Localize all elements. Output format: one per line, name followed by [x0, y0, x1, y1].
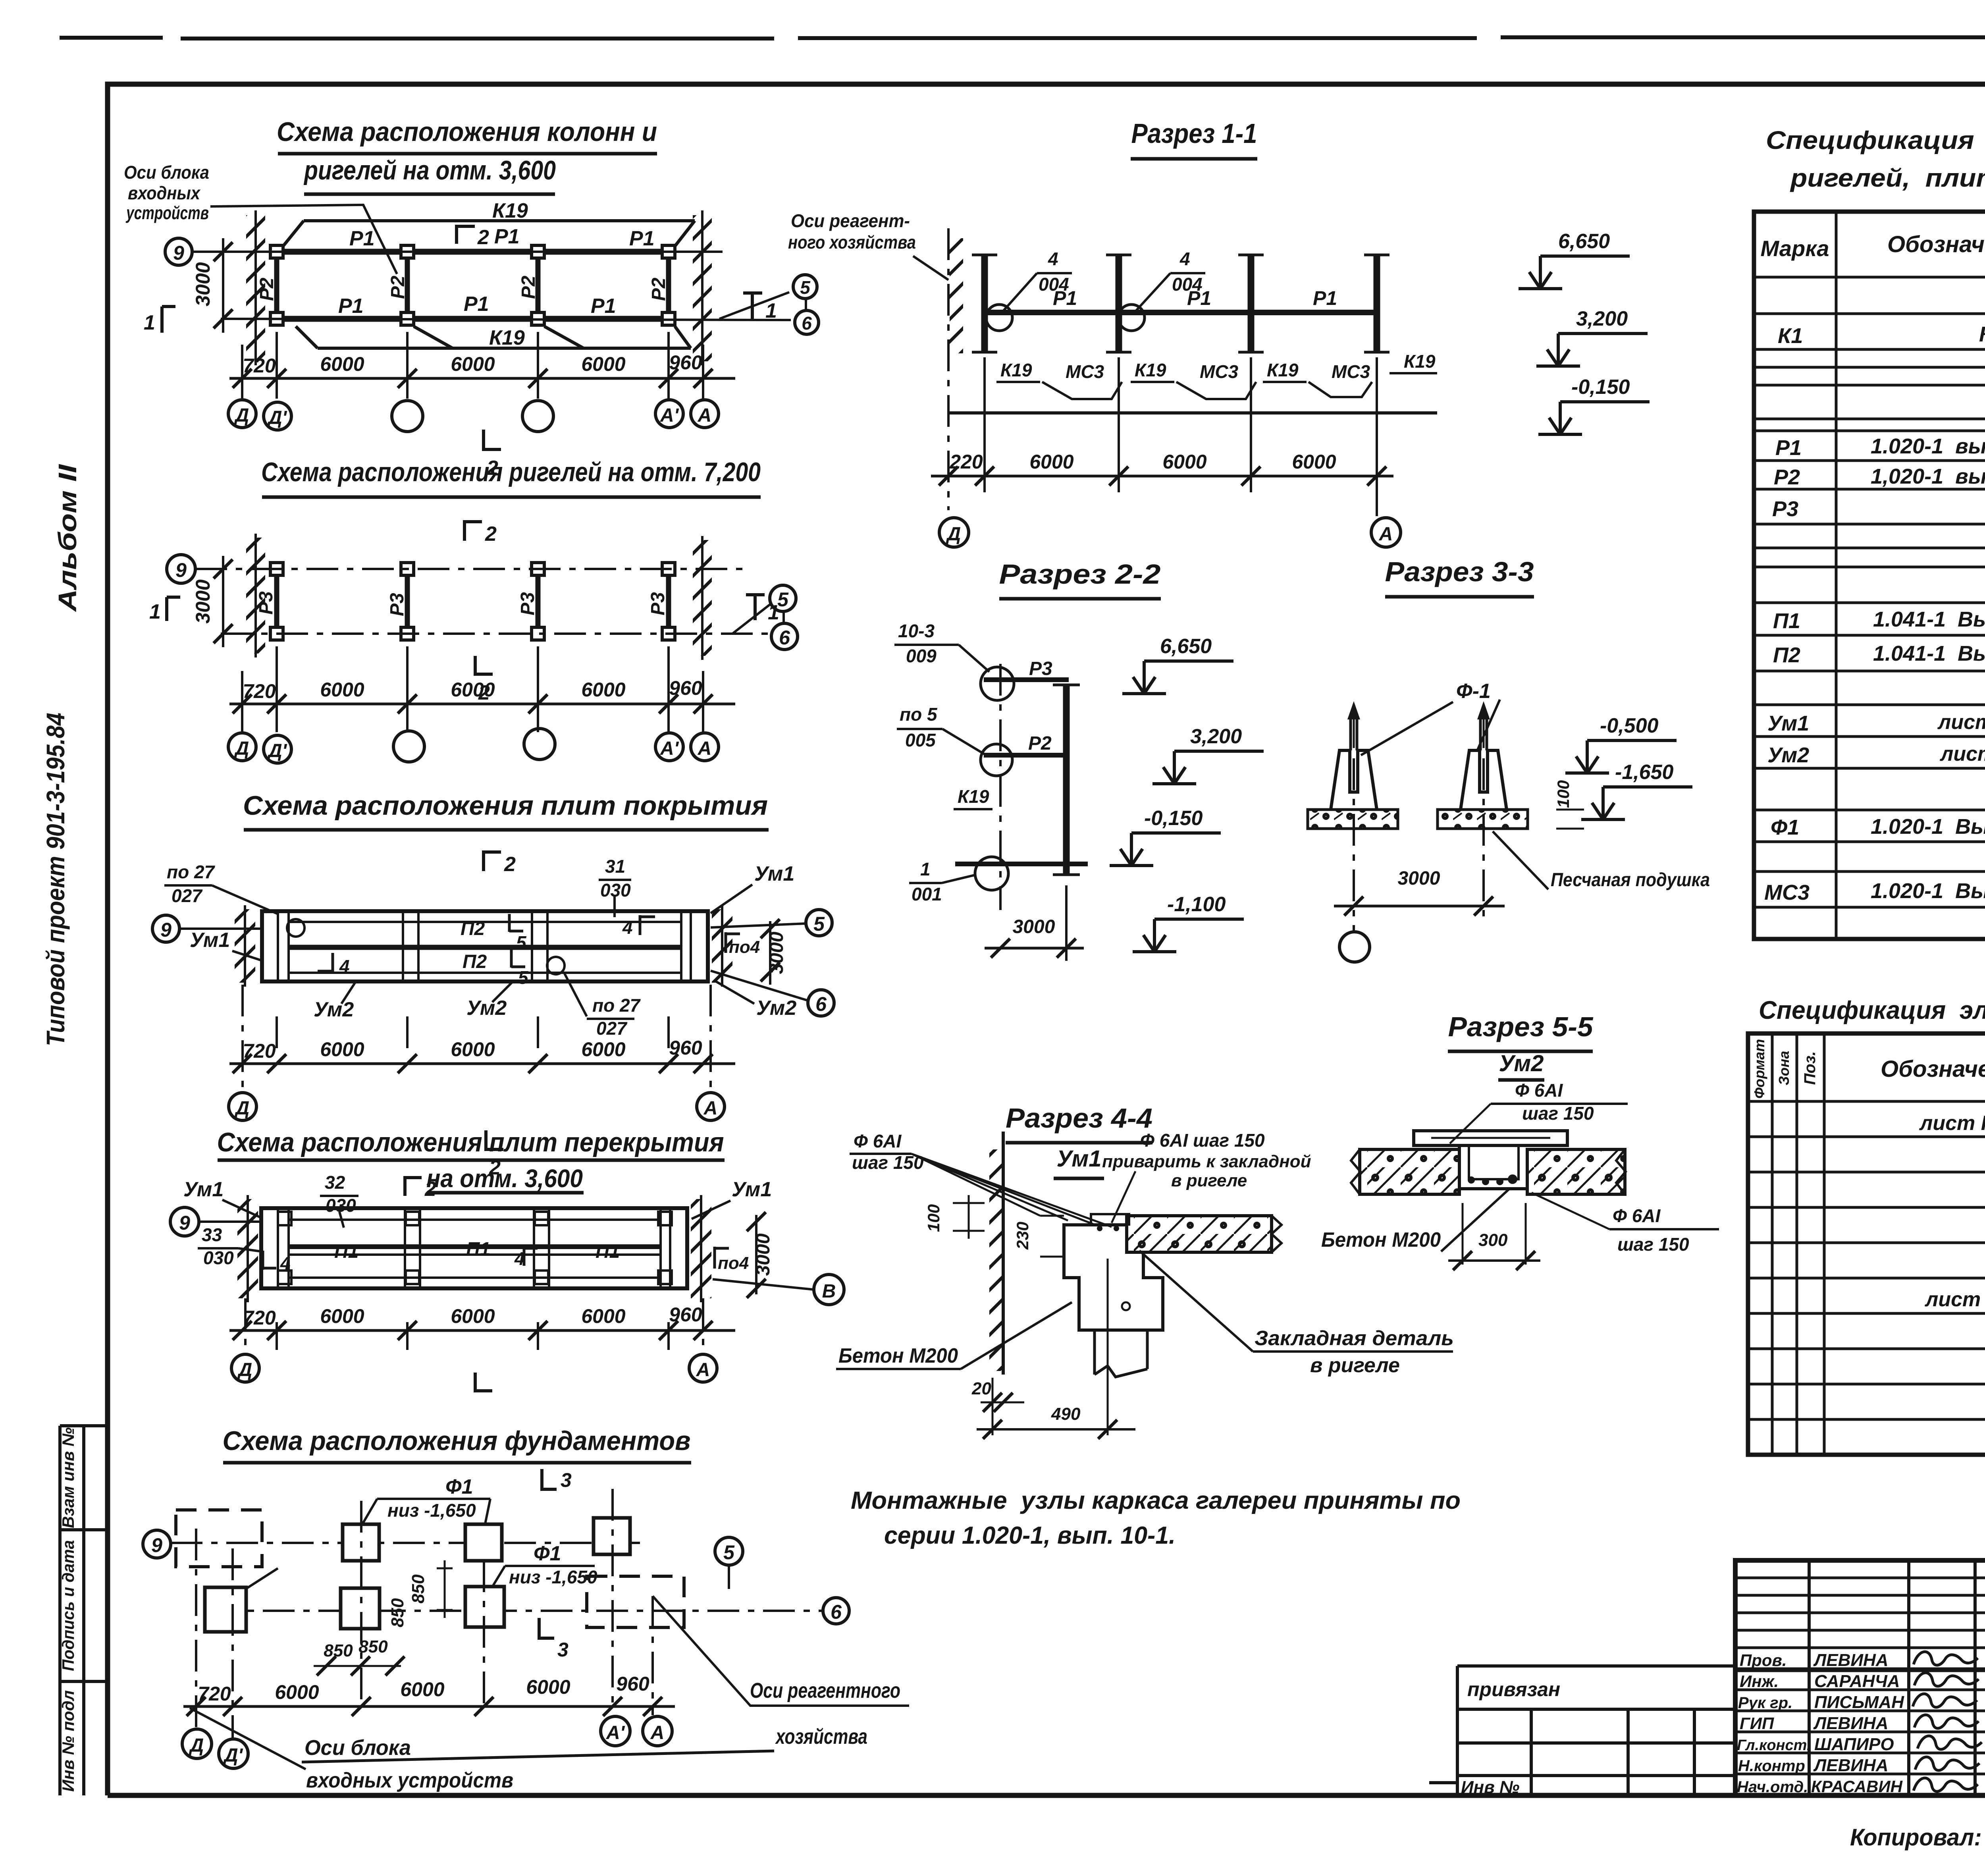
svg-text:Д: Д — [234, 1098, 250, 1119]
svg-text:9: 9 — [151, 1534, 162, 1556]
foundation 2 body — [1461, 750, 1507, 810]
svg-text:Ум1: Ум1 — [732, 1178, 772, 1201]
leader Um1 right — [692, 1201, 730, 1219]
svg-text:Подпись и дата: Подпись и дата — [59, 1540, 77, 1671]
leader to circle 5 — [732, 604, 770, 634]
svg-text:К19: К19 — [492, 199, 528, 222]
svg-text:САРАНЧА: САРАНЧА — [1814, 1672, 1900, 1691]
svg-text:Д': Д' — [223, 1745, 243, 1766]
svg-text:Гл.конст.: Гл.конст. — [1737, 1737, 1811, 1754]
svg-text:Оси реагентного: Оси реагентного — [750, 1679, 900, 1702]
svg-text:серии 1.020-1, вып. 10-1.: серии 1.020-1, вып. 10-1. — [884, 1522, 1176, 1549]
embedded plate — [1091, 1214, 1129, 1224]
column K19 thick — [1063, 685, 1070, 875]
svg-text:П1: П1 — [334, 1241, 358, 1262]
svg-text:6000: 6000 — [320, 1038, 364, 1060]
svg-text:6000: 6000 — [451, 1038, 495, 1060]
dim 300 ext lines — [1463, 1203, 1526, 1265]
rebar leaders fan — [912, 1154, 1112, 1227]
svg-text:КЖИ.К19: КЖИ.К19 — [1979, 322, 1985, 346]
svg-text:960: 960 — [669, 1037, 702, 1059]
svg-text:Бетон М200: Бетон М200 — [838, 1344, 958, 1367]
svg-text:Р3: Р3 — [648, 592, 669, 615]
section mark 4 left — [318, 953, 333, 973]
svg-text:-1,650: -1,650 — [1615, 761, 1674, 784]
left block cut — [1351, 1149, 1361, 1194]
leader po27 bottom — [565, 974, 587, 1016]
leaders F1 — [362, 1499, 490, 1525]
svg-text:хозяйства: хозяйства — [775, 1725, 867, 1749]
right wall hatch — [693, 540, 712, 656]
leader Um1 left — [222, 1200, 262, 1218]
section mark 2 top — [405, 1176, 422, 1196]
svg-text:100: 100 — [924, 1204, 943, 1232]
axis extension verticals — [243, 985, 711, 1092]
svg-text:9: 9 — [160, 919, 172, 941]
foundation squares row 2 — [205, 1587, 246, 1632]
svg-text:МС3: МС3 — [1332, 361, 1370, 382]
svg-text:Д: Д — [234, 738, 249, 759]
svg-text:привязан: привязан — [1467, 1678, 1560, 1701]
po4 mark right — [726, 932, 740, 953]
svg-text:Разрез 3-3: Разрез 3-3 — [1385, 556, 1534, 587]
svg-text:Схема расположения плит перекр: Схема расположения плит перекрытия — [217, 1127, 724, 1157]
svg-text:6,650: 6,650 — [1160, 635, 1212, 658]
svg-text:5: 5 — [516, 932, 527, 953]
svg-text:Р2: Р2 — [256, 278, 278, 301]
svg-text:490: 490 — [1051, 1404, 1081, 1424]
svg-text:Поз.: Поз. — [1801, 1051, 1819, 1085]
dimension line scheme 5 — [183, 1705, 675, 1708]
axis row 2 dash-dot — [221, 632, 769, 635]
axis extension verticals — [245, 1298, 703, 1354]
column squares row 1 — [270, 563, 675, 575]
svg-text:2: 2 — [504, 853, 516, 876]
svg-text:6: 6 — [779, 627, 790, 649]
svg-text:в ригеле: в ригеле — [1310, 1354, 1400, 1377]
svg-text:ПИСЬМАН: ПИСЬМАН — [1814, 1693, 1904, 1712]
axis line left — [179, 927, 262, 930]
svg-text:ригелей, плит, фундаментов: ригелей, плит, фундаментов — [1790, 164, 1985, 192]
svg-text:3,200: 3,200 — [1576, 307, 1628, 330]
svg-text:А: А — [703, 1098, 718, 1119]
svg-text:027: 027 — [596, 1018, 628, 1039]
svg-text:по 5: по 5 — [900, 704, 938, 725]
T1 mark — [746, 595, 765, 620]
svg-text:6000: 6000 — [275, 1681, 319, 1703]
slab concrete — [1127, 1216, 1272, 1252]
svg-text:лист КЖ50: лист КЖ50 — [1939, 742, 1985, 765]
svg-text:009: 009 — [906, 646, 937, 666]
section mark 2 top — [457, 225, 475, 244]
elevation 3.200 — [1536, 334, 1648, 366]
right block cut — [1616, 1149, 1626, 1194]
svg-text:1.041-1 Вып.1: 1.041-1 Вып.1 — [1873, 642, 1985, 665]
axis circle 5 — [715, 1537, 743, 1565]
svg-text:-0,150: -0,150 — [1144, 807, 1203, 830]
axis circle 5 — [793, 275, 817, 299]
svg-text:Оси блока: Оси блока — [304, 1736, 411, 1760]
axis extension verticals — [196, 1489, 653, 1739]
svg-text:4: 4 — [1048, 249, 1058, 269]
svg-text:-1,100: -1,100 — [1167, 893, 1226, 916]
svg-text:3,200: 3,200 — [1190, 725, 1242, 748]
connector 5-6 — [805, 299, 807, 310]
svg-text:1.020-1 вып.3-1: 1.020-1 вып.3-1 — [1871, 434, 1985, 458]
section mark 2 bottom — [475, 656, 493, 676]
axis row 1 dash-dot — [195, 568, 743, 570]
svg-text:2: 2 — [485, 523, 497, 546]
svg-text:А: А — [1379, 524, 1393, 545]
svg-text:ШАПИРО: ШАПИРО — [1814, 1735, 1894, 1754]
svg-text:на отм. 3,600: на отм. 3,600 — [426, 1164, 583, 1193]
svg-text:Р1: Р1 — [338, 295, 364, 318]
leader square row2 left — [247, 1568, 278, 1588]
svg-text:Разрез 5-5: Разрез 5-5 — [1448, 1011, 1594, 1042]
svg-text:Р3: Р3 — [387, 593, 408, 616]
svg-text:Д': Д' — [267, 407, 287, 428]
svg-text:К19: К19 — [489, 326, 525, 349]
svg-text:В: В — [822, 1281, 836, 1302]
svg-text:Р2: Р2 — [387, 276, 409, 299]
axis circle 6 — [808, 990, 834, 1016]
svg-text:К19: К19 — [1000, 360, 1032, 380]
svg-text:Р1: Р1 — [349, 227, 375, 250]
axis circle 9 — [165, 238, 192, 265]
svg-text:960: 960 — [616, 1673, 649, 1695]
elevation -0.150 — [1110, 833, 1221, 866]
svg-text:001: 001 — [912, 884, 942, 904]
upper thin rows left zone — [1735, 1578, 1985, 1671]
svg-text:9: 9 — [179, 1212, 190, 1234]
leader to input block label — [190, 1708, 306, 1769]
svg-text:Р3: Р3 — [1772, 497, 1798, 521]
foundation 1 base plate — [1308, 810, 1398, 829]
svg-text:Ум2: Ум2 — [1767, 743, 1809, 767]
svg-text:Ум1: Ум1 — [1057, 1146, 1102, 1172]
joint circle bottom — [975, 857, 1008, 890]
svg-text:4: 4 — [1179, 249, 1190, 269]
section mark 1 left — [162, 307, 175, 333]
svg-text:Н.контр: Н.контр — [1738, 1757, 1805, 1775]
svg-text:шаг 150: шаг 150 — [1617, 1234, 1689, 1255]
svg-text:устройств: устройств — [125, 202, 209, 223]
girders P2 verticals — [277, 258, 669, 312]
axis circle 9 — [143, 1530, 171, 1558]
axis row 1 line — [192, 251, 723, 253]
signature rows — [1735, 1669, 1985, 1774]
svg-text:1: 1 — [144, 311, 155, 334]
svg-text:Альбом II: Альбом II — [53, 464, 82, 613]
right wall hatch — [691, 1199, 711, 1298]
svg-text:850: 850 — [358, 1637, 388, 1656]
svg-text:Ум1: Ум1 — [1767, 711, 1809, 735]
svg-text:Схема расположения ригелей на: Схема расположения ригелей на отм. 7,200 — [261, 457, 761, 487]
svg-text:1.041-1 Вып.1: 1.041-1 Вып.1 — [1873, 607, 1985, 631]
svg-text:20: 20 — [971, 1379, 991, 1398]
svg-text:Копировал: Корецкая: Копировал: Корецкая — [1850, 1824, 1985, 1851]
leader reagent label — [913, 256, 948, 280]
slab band outer rect — [261, 1208, 687, 1288]
connector 5-6 — [782, 611, 785, 623]
svg-text:Ф 6АI: Ф 6АI — [1613, 1205, 1661, 1226]
top edge line — [60, 37, 1985, 39]
svg-text:850: 850 — [388, 1598, 407, 1627]
wall hatch — [950, 238, 963, 353]
axis verticals — [1354, 758, 1484, 931]
svg-text:-0,150: -0,150 — [1571, 376, 1630, 399]
svg-text:П2: П2 — [461, 918, 485, 939]
axis line left — [199, 1220, 262, 1223]
svg-text:3: 3 — [561, 1469, 572, 1491]
svg-text:Разрез 1-1: Разрез 1-1 — [1131, 118, 1257, 149]
left concrete block — [1360, 1149, 1459, 1194]
svg-text:Р2: Р2 — [1028, 733, 1052, 754]
section mark 3 bottom — [539, 1618, 554, 1640]
svg-text:Р2: Р2 — [1774, 465, 1800, 489]
svg-text:3000: 3000 — [192, 579, 214, 623]
svg-text:К19: К19 — [1404, 351, 1436, 372]
svg-text:Марка: Марка — [1761, 236, 1829, 261]
svg-text:Обозначение: Обозначение — [1881, 1056, 1985, 1082]
wall line with hatch — [1002, 1132, 1005, 1375]
svg-text:Нач.отд.: Нач.отд. — [1737, 1778, 1808, 1796]
svg-text:10-3: 10-3 — [898, 621, 935, 641]
right concrete block — [1527, 1149, 1625, 1194]
floor line -0.150 — [955, 862, 1088, 866]
table 2 grid — [1748, 1033, 1985, 1455]
left wall hatch — [237, 1199, 258, 1298]
top plate — [1414, 1131, 1567, 1145]
left wall hatch — [246, 538, 265, 654]
svg-text:720: 720 — [243, 355, 276, 377]
dim 3000 vertical right — [755, 1215, 757, 1294]
svg-text:Бетон М200: Бетон М200 — [1321, 1228, 1441, 1251]
right wall hatch — [693, 215, 712, 361]
svg-text:6000: 6000 — [581, 1305, 625, 1327]
lower column — [1095, 1330, 1147, 1377]
slab cut end — [1272, 1216, 1282, 1252]
svg-text:6,650: 6,650 — [1558, 230, 1610, 253]
foundation squares row 1 — [343, 1524, 379, 1561]
svg-text:5: 5 — [518, 967, 529, 988]
axis circle 5 — [770, 585, 796, 611]
svg-text:6000: 6000 — [1029, 451, 1073, 473]
svg-text:6: 6 — [815, 993, 827, 1015]
dimension line scheme 1 — [229, 377, 735, 380]
svg-text:МС3: МС3 — [1200, 361, 1239, 382]
svg-text:К19: К19 — [1267, 360, 1299, 380]
svg-text:6: 6 — [802, 313, 812, 334]
svg-text:1: 1 — [768, 601, 779, 624]
svg-text:Р1: Р1 — [629, 227, 655, 250]
svg-text:Разрез 2-2: Разрез 2-2 — [999, 559, 1161, 590]
axis extension verticals — [985, 357, 1377, 516]
T1 mark — [743, 293, 762, 320]
svg-text:ного хозяйства: ного хозяйства — [788, 232, 916, 253]
svg-text:6000: 6000 — [581, 1038, 625, 1060]
dim 3000 vertical — [222, 238, 224, 333]
table 1 grid — [1754, 212, 1985, 939]
elevation 6.650 — [1122, 661, 1233, 694]
trough U profile — [1459, 1145, 1527, 1189]
svg-text:лист КЖ50: лист КЖ50 — [1924, 1288, 1985, 1311]
svg-text:-0,500: -0,500 — [1600, 714, 1659, 737]
svg-text:КРАСАВИН: КРАСАВИН — [1811, 1777, 1903, 1796]
svg-text:Монтажные узлы каркаса галере: Монтажные узлы каркаса галереи приняты п… — [851, 1487, 1461, 1514]
svg-text:004: 004 — [1039, 274, 1069, 295]
svg-text:027: 027 — [172, 885, 203, 906]
svg-text:Д': Д' — [267, 740, 287, 762]
svg-text:Разрез 4-4: Разрез 4-4 — [1006, 1103, 1152, 1134]
svg-text:300: 300 — [1478, 1230, 1508, 1250]
leader to circle B — [713, 1279, 814, 1290]
svg-text:Ум2: Ум2 — [466, 997, 507, 1020]
svg-text:3000: 3000 — [766, 931, 787, 974]
svg-text:720: 720 — [198, 1683, 231, 1705]
svg-text:К1: К1 — [1778, 324, 1803, 348]
foundation 1 column stub — [1351, 719, 1357, 750]
section mark 2 top — [484, 850, 501, 871]
svg-text:Ф1: Ф1 — [1771, 816, 1799, 839]
svg-text:низ -1,650: низ -1,650 — [509, 1567, 597, 1587]
axis row 2 dash-dot — [207, 1610, 823, 1612]
leader 31/030 — [613, 897, 616, 917]
svg-text:3000: 3000 — [753, 1233, 774, 1276]
axis circle 9 — [152, 915, 179, 942]
slab band inner structure — [278, 1208, 670, 1288]
svg-text:Закладная деталь: Закладная деталь — [1255, 1327, 1454, 1350]
section mark 2 bottom — [486, 1130, 503, 1151]
girders P1 row 1 — [283, 249, 662, 255]
top chord K19 — [283, 221, 695, 246]
svg-text:приварить к закладной: приварить к закладной — [1102, 1152, 1311, 1171]
girders P1 row 2 — [283, 316, 662, 322]
svg-text:32: 32 — [325, 1172, 345, 1193]
svg-text:31: 31 — [605, 856, 625, 877]
leader Um1 left — [232, 951, 263, 961]
svg-text:1: 1 — [920, 859, 931, 879]
svg-text:Схема расположения колонн и: Схема расположения колонн и — [277, 117, 657, 147]
svg-text:лист КЖ 50: лист КЖ 50 — [1937, 711, 1985, 734]
bottom axis circles scheme 1 — [228, 400, 256, 428]
leader Um1 right — [711, 885, 752, 913]
axis circle 6 — [823, 1598, 849, 1624]
girder P3 end — [984, 677, 1069, 682]
svg-text:Ф 6АI: Ф 6АI — [1515, 1080, 1563, 1101]
svg-text:А': А' — [660, 738, 679, 759]
svg-text:960: 960 — [669, 351, 702, 374]
svg-text:1,020-1 вып.3-1: 1,020-1 вып.3-1 — [1871, 465, 1985, 488]
svg-text:850: 850 — [409, 1574, 428, 1604]
svg-text:Ум1: Ум1 — [190, 929, 230, 952]
axis circle 5 — [806, 910, 832, 936]
svg-text:Схема расположения плит покрыт: Схема расположения плит покрытия — [243, 791, 768, 821]
dashed outline right — [587, 1576, 684, 1627]
girders P3 verticals — [277, 575, 669, 627]
svg-text:Инв №: Инв № — [1461, 1778, 1519, 1797]
axis extension verticals — [242, 646, 703, 732]
svg-text:Схема расположения фундаментов: Схема расположения фундаментов — [223, 1426, 691, 1456]
svg-text:1.020-1 Вып.9-1: 1.020-1 Вып.9-1 — [1871, 879, 1985, 903]
svg-text:004: 004 — [1172, 274, 1203, 295]
svg-text:Зона: Зона — [1776, 1051, 1792, 1085]
svg-text:Р3: Р3 — [256, 591, 277, 615]
svg-text:9: 9 — [175, 559, 187, 581]
dim 3000 vertical right — [769, 921, 771, 985]
svg-text:Ум2: Ум2 — [314, 998, 354, 1021]
svg-text:Спецификация к схемам располо: Спецификация к схемам расположения колон… — [1766, 126, 1985, 154]
signatures — [1914, 1652, 1978, 1665]
svg-text:по4: по4 — [729, 937, 760, 957]
svg-text:Инж.: Инж. — [1740, 1672, 1779, 1691]
svg-text:3000: 3000 — [1013, 916, 1055, 937]
svg-text:П1: П1 — [466, 1239, 490, 1260]
foundation 2 column stub — [1480, 719, 1487, 750]
axis extension verticals — [242, 332, 703, 399]
svg-text:960: 960 — [669, 677, 702, 699]
svg-text:в ригеле: в ригеле — [1171, 1171, 1247, 1190]
bottom axis circles scheme 2 — [228, 733, 256, 761]
svg-text:6000: 6000 — [400, 1678, 444, 1701]
slab band outer rect — [262, 911, 708, 981]
elevation -1.650 — [1581, 787, 1692, 819]
svg-text:Д: Д — [234, 405, 249, 426]
left attach block — [1457, 1666, 1735, 1795]
svg-text:Р1: Р1 — [494, 225, 520, 248]
dimension line scheme 2 — [229, 703, 735, 706]
svg-text:5: 5 — [800, 277, 811, 298]
svg-text:Взам инв №: Взам инв № — [59, 1427, 77, 1528]
axis circle empty — [1339, 932, 1370, 962]
bottom axis circles scheme 4 — [231, 1354, 259, 1382]
foundation 1 body — [1331, 750, 1377, 810]
svg-text:6000: 6000 — [526, 1676, 570, 1698]
svg-text:5: 5 — [813, 913, 825, 935]
svg-text:3000: 3000 — [1398, 868, 1440, 889]
leader F1-2 — [491, 1566, 505, 1588]
svg-text:Д: Д — [237, 1359, 252, 1380]
svg-text:005: 005 — [905, 730, 936, 750]
svg-text:Ум1: Ум1 — [183, 1178, 224, 1201]
svg-text:ЛЕВИНА: ЛЕВИНА — [1813, 1756, 1889, 1775]
axis circle 6 — [771, 623, 798, 650]
svg-text:6000: 6000 — [451, 679, 495, 701]
svg-text:лист КЖ 50: лист КЖ 50 — [1919, 1112, 1985, 1135]
svg-text:Формат: Формат — [1751, 1039, 1767, 1099]
svg-text:850: 850 — [324, 1641, 353, 1660]
beam ledge — [1064, 1225, 1163, 1330]
svg-text:Обозначение: Обозначение — [1887, 231, 1985, 257]
svg-text:А': А' — [606, 1722, 625, 1743]
svg-text:6000: 6000 — [451, 353, 495, 375]
svg-text:П1: П1 — [1773, 609, 1800, 633]
dashed outline left — [176, 1510, 262, 1567]
corner joint squares — [278, 1212, 672, 1284]
label underlines and leaders — [996, 373, 1437, 382]
svg-text:3000: 3000 — [192, 262, 214, 306]
svg-text:100: 100 — [1554, 780, 1573, 808]
svg-text:Ф-1: Ф-1 — [1456, 680, 1491, 703]
svg-text:4: 4 — [622, 917, 633, 938]
right wall hatch — [712, 909, 732, 983]
svg-text:Р3: Р3 — [1029, 658, 1052, 679]
svg-text:К19: К19 — [958, 786, 989, 807]
svg-text:ЛЕВИНА: ЛЕВИНА — [1813, 1714, 1889, 1733]
svg-text:входных: входных — [128, 183, 201, 203]
svg-text:Оси реагент-: Оси реагент- — [791, 210, 910, 231]
section mark 1 left — [167, 597, 180, 621]
